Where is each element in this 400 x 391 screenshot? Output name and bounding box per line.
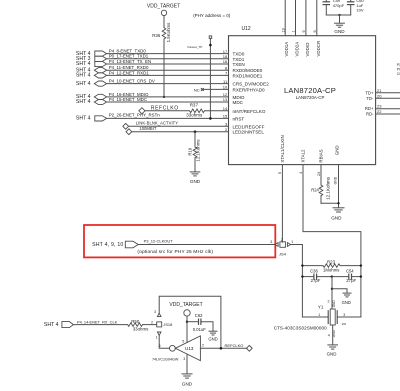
svg-text:LED2/nINTSEL: LED2/nINTSEL bbox=[233, 130, 265, 135]
svg-text:TD-: TD- bbox=[366, 96, 374, 101]
svg-text:SHT 4: SHT 4 bbox=[76, 81, 91, 87]
wire MDIO bbox=[107, 96, 229, 98]
svg-text:XTAL1/CLKIN: XTAL1/CLKIN bbox=[280, 135, 285, 162]
svg-text:GND: GND bbox=[342, 300, 351, 305]
wire RD+ pin 23 bbox=[376, 108, 400, 110]
wire TX_EN bbox=[107, 63, 229, 65]
node 100MBIT (diamond) bbox=[126, 126, 157, 135]
svg-text:P4_15-ENET_MDC: P4_15-ENET_MDC bbox=[109, 97, 147, 102]
svg-text:R24: R24 bbox=[311, 188, 319, 193]
tag SHT 4 PHY_RSTn bbox=[76, 113, 160, 122]
svg-text:P4_13-ENET_TX_EN: P4_13-ENET_TX_EN bbox=[109, 59, 151, 64]
wire JS18 pin3 bypass bbox=[159, 296, 221, 348]
svg-text:R37: R37 bbox=[190, 103, 199, 108]
tag SHT 4 MDIO bbox=[76, 92, 149, 100]
svg-text:33ohms: 33ohms bbox=[186, 112, 203, 117]
IC left pin numbers bbox=[223, 49, 228, 132]
tag SHT 4 RX_CLK bbox=[44, 319, 118, 328]
ground (caps) bbox=[335, 23, 345, 27]
wire JS4 pin1 to crystal left node bbox=[291, 245, 303, 318]
power VDD_TARGET (bottom) bbox=[169, 302, 202, 342]
svg-text:SHT 4: SHT 4 bbox=[76, 116, 91, 122]
svg-text:LAN8720A-CP: LAN8720A-CP bbox=[284, 86, 336, 95]
svg-text:Fanout_TP: Fanout_TP bbox=[188, 45, 203, 49]
svg-text:19: 19 bbox=[281, 28, 285, 32]
tag SHT 4 TXD0 bbox=[76, 49, 146, 57]
svg-text:74LVC1G04GW: 74LVC1G04GW bbox=[152, 357, 179, 361]
svg-text:SHT 4: SHT 4 bbox=[44, 322, 59, 328]
svg-text:VDD2A: VDD2A bbox=[295, 42, 300, 57]
svg-text:470pF: 470pF bbox=[333, 3, 345, 8]
svg-text:REFCLKO: REFCLKO bbox=[225, 343, 244, 348]
tag SHT 3 TXD1 bbox=[76, 54, 149, 62]
svg-text:16: 16 bbox=[223, 59, 228, 64]
svg-text:XTAL2: XTAL2 bbox=[301, 149, 306, 163]
svg-text:R50: R50 bbox=[131, 319, 140, 324]
svg-text:24: 24 bbox=[317, 172, 321, 176]
resistor R23 1Mohms bbox=[302, 259, 361, 272]
wire R50 to JS18 bbox=[143, 324, 157, 326]
svg-text:LAN8720A-CP: LAN8720A-CP bbox=[296, 95, 325, 100]
wire TXD1 bbox=[107, 58, 229, 60]
svg-text:U13: U13 bbox=[185, 346, 194, 351]
IC right pin labels TD+/TD-/RD+/RD- bbox=[365, 90, 374, 116]
svg-text:TD+: TD+ bbox=[365, 90, 374, 95]
wire GND pin down bbox=[338, 165, 340, 208]
inverter U13 74LVC1G04GW bbox=[152, 336, 204, 362]
node REFCLKO (diamond, bottom) bbox=[225, 343, 253, 351]
wire LED1 bbox=[129, 125, 229, 127]
svg-text:23: 23 bbox=[377, 104, 382, 109]
wire MDC bbox=[107, 101, 229, 103]
svg-text:RBIAS: RBIAS bbox=[319, 149, 324, 162]
power VDD_TARGET (top, R36) bbox=[147, 3, 180, 27]
svg-text:VDD_TARGET: VDD_TARGET bbox=[169, 302, 202, 308]
ground (crystal top) bbox=[343, 293, 351, 297]
svg-text:CRS_DV/MODE2: CRS_DV/MODE2 bbox=[233, 82, 270, 87]
svg-text:VDD1A: VDD1A bbox=[284, 42, 289, 57]
svg-text:GND: GND bbox=[332, 300, 336, 308]
svg-text:1: 1 bbox=[292, 30, 296, 32]
resistor R19 12.1Kohms bbox=[187, 132, 200, 172]
wire RXD0 bbox=[107, 69, 229, 71]
resistor R36 1.5Kohms bbox=[152, 22, 171, 97]
svg-text:22: 22 bbox=[377, 109, 382, 114]
wire XTAL2 pin4 down and right bbox=[303, 165, 361, 317]
svg-text:VDD_TARGET: VDD_TARGET bbox=[147, 3, 180, 9]
testpoint Fanout_TP bbox=[188, 36, 212, 119]
svg-text:3: 3 bbox=[154, 310, 156, 314]
svg-text:(PHY address = 0): (PHY address = 0) bbox=[193, 13, 231, 18]
svg-text:VDDCR: VDDCR bbox=[316, 41, 321, 57]
IC right pin numbers bbox=[377, 88, 382, 114]
wire LED2 bbox=[132, 131, 229, 133]
svg-text:2: 2 bbox=[202, 344, 204, 348]
node LED2/R19 junction bbox=[194, 130, 197, 133]
svg-text:P4_14-ENET_RX_CLK: P4_14-ENET_RX_CLK bbox=[77, 319, 118, 324]
svg-text:VDDIO: VDDIO bbox=[305, 42, 310, 56]
tag SHT 4 TX_EN bbox=[76, 59, 151, 67]
svg-text:1: 1 bbox=[291, 240, 293, 244]
svg-text:NC: NC bbox=[194, 87, 200, 92]
svg-text:(optional src for PHY 25 MHz c: (optional src for PHY 25 MHz clk) bbox=[137, 249, 213, 255]
svg-text:CTS-403C3S02SM00000: CTS-403C3S02SM00000 bbox=[274, 326, 327, 331]
wire U13 output bbox=[200, 347, 247, 349]
tag SHT 4 MDC bbox=[76, 97, 147, 105]
svg-text:RXER/PHYAD0: RXER/PHYAD0 bbox=[233, 87, 266, 92]
resistor R50 33ohms bbox=[128, 319, 150, 331]
svg-text:TXEN: TXEN bbox=[233, 62, 245, 67]
svg-text:JS4: JS4 bbox=[279, 251, 287, 256]
svg-text:4: 4 bbox=[328, 334, 330, 338]
svg-text:2: 2 bbox=[151, 320, 153, 324]
svg-text:GND: GND bbox=[335, 145, 340, 155]
wire TXD0 bbox=[107, 53, 229, 55]
svg-text:R36: R36 bbox=[152, 33, 161, 38]
capacitor C36 27pF bbox=[302, 269, 348, 284]
wire crystal mid column bbox=[331, 277, 333, 309]
svg-text:RD-: RD- bbox=[366, 112, 374, 117]
svg-text:GND: GND bbox=[331, 215, 342, 220]
svg-text:GND: GND bbox=[334, 29, 345, 34]
ground (C62) bbox=[209, 331, 217, 335]
svg-text:P4_10-ENET_CRS_DV: P4_10-ENET_CRS_DV bbox=[109, 79, 155, 84]
svg-text:R23: R23 bbox=[327, 259, 336, 264]
ground (U13) bbox=[182, 374, 192, 378]
svg-text:3: 3 bbox=[343, 313, 345, 317]
wire TD- pin 20 bbox=[376, 97, 400, 99]
wire R37 to pin 14 bbox=[205, 110, 229, 112]
svg-text:2: 2 bbox=[281, 238, 283, 242]
wire TD+ pin 21 bbox=[376, 92, 400, 94]
ground (R19) bbox=[190, 172, 200, 176]
wire caps to gnd bbox=[326, 14, 350, 16]
capacitor C60 1uF 10V bbox=[347, 0, 365, 15]
svg-text:4: 4 bbox=[159, 344, 161, 348]
svg-text:P3_12-CLKOUT: P3_12-CLKOUT bbox=[144, 238, 174, 243]
wire CLKOUT to JS4 bbox=[138, 244, 275, 246]
capacitor C62 0.01uF bbox=[187, 313, 213, 332]
tag SHT 4,9,10 CLKOUT bbox=[92, 238, 213, 255]
svg-text:MDC: MDC bbox=[233, 100, 244, 105]
svg-text:12.1Kohms: 12.1Kohms bbox=[196, 139, 201, 162]
svg-text:2W: 2W bbox=[342, 322, 347, 326]
IC bottom pin labels (rotated) bbox=[280, 135, 340, 162]
svg-text:12.1Kohms: 12.1Kohms bbox=[325, 176, 330, 200]
tag SHT 4 RXD1 bbox=[76, 70, 149, 78]
ground (GND pin / R24) bbox=[333, 208, 344, 212]
svg-text:C54: C54 bbox=[346, 269, 354, 274]
wire XTAL1/CLKIN pin5 down to JS4 bbox=[281, 165, 283, 243]
svg-text:GND: GND bbox=[182, 382, 193, 387]
resistor R37 33ohms bbox=[186, 103, 204, 118]
svg-text:6: 6 bbox=[313, 30, 317, 32]
svg-text:0.01uF: 0.01uF bbox=[193, 327, 206, 332]
node nRST junction bbox=[209, 117, 212, 120]
IC left pin labels bbox=[233, 52, 270, 135]
svg-text:1: 1 bbox=[318, 313, 320, 317]
tag SHT 4 CRS_DV bbox=[76, 79, 155, 87]
wire RXD1 bbox=[107, 74, 229, 76]
svg-text:P2_26-ENET_PHY_RSTn: P2_26-ENET_PHY_RSTn bbox=[109, 113, 161, 118]
svg-text:C62: C62 bbox=[195, 313, 203, 318]
capacitor C54 27pF bbox=[346, 269, 361, 284]
svg-text:GND: GND bbox=[190, 179, 201, 184]
svg-text:9: 9 bbox=[302, 30, 306, 32]
wire RX_CLK to R50 bbox=[73, 324, 127, 326]
IC U12 body bbox=[229, 26, 376, 164]
wire nRST bbox=[107, 117, 229, 119]
IC bottom pin numbers (rotated) bbox=[278, 172, 337, 185]
svg-text:RD+: RD+ bbox=[365, 106, 374, 111]
IC top power pins VDD1A VDD2A VDDIO VDDCR bbox=[284, 0, 286, 36]
svg-text:GND: GND bbox=[208, 337, 217, 342]
svg-text:GND: GND bbox=[327, 351, 337, 356]
svg-text:15: 15 bbox=[223, 114, 228, 119]
wire U13 pin3 to gnd bbox=[186, 355, 188, 374]
svg-text:5: 5 bbox=[182, 339, 184, 343]
svg-text:21: 21 bbox=[377, 88, 382, 93]
svg-text:nINT/REFCLKO: nINT/REFCLKO bbox=[233, 109, 266, 114]
jumper JS4 bbox=[270, 238, 293, 257]
svg-text:SHT 4: SHT 4 bbox=[76, 73, 91, 79]
svg-text:SHT 4: SHT 4 bbox=[76, 99, 91, 105]
svg-text:27pF: 27pF bbox=[346, 278, 356, 283]
node REFCLKO (diamond) bbox=[139, 105, 179, 114]
wire JS18 pin1 to inverter input bbox=[159, 335, 169, 348]
wire to gnd (crystal case) bbox=[332, 289, 347, 293]
svg-text:1.5Kohms: 1.5Kohms bbox=[166, 22, 171, 43]
svg-text:RXD1/MODE1: RXD1/MODE1 bbox=[233, 73, 263, 78]
svg-text:P4_12-ENET_RXD1: P4_12-ENET_RXD1 bbox=[109, 70, 150, 75]
svg-text:20: 20 bbox=[377, 93, 382, 98]
svg-text:JS18: JS18 bbox=[163, 322, 172, 327]
node LINK-BLNK_ACTVITY (diamond) bbox=[123, 121, 178, 130]
svg-text:27pF: 27pF bbox=[311, 278, 321, 283]
svg-text:2: 2 bbox=[328, 300, 330, 304]
no-connect pin 10 bbox=[194, 87, 229, 92]
svg-text:SHT 4, 9, 10: SHT 4, 9, 10 bbox=[92, 242, 123, 248]
svg-text:3: 3 bbox=[183, 357, 185, 361]
svg-text:1: 1 bbox=[156, 336, 158, 340]
svg-text:14: 14 bbox=[223, 106, 228, 111]
crystal Y1 bbox=[302, 300, 361, 345]
tag SHT 4 RXD0 bbox=[76, 65, 149, 73]
capacitor C59 470pF bbox=[323, 0, 345, 15]
wire RD- pin 22 bbox=[376, 113, 400, 115]
svg-text:GND: GND bbox=[333, 176, 337, 184]
svg-text:100MBIT: 100MBIT bbox=[139, 126, 156, 131]
svg-text:U12: U12 bbox=[242, 26, 251, 32]
cut-off text right edge bbox=[397, 63, 400, 76]
wire CRS_DV bbox=[107, 83, 229, 85]
svg-text:13: 13 bbox=[223, 97, 228, 102]
jumper JS18 bbox=[154, 310, 172, 340]
svg-text:5: 5 bbox=[278, 172, 282, 174]
svg-text:10V: 10V bbox=[356, 8, 363, 13]
ground (crystal bottom) bbox=[328, 345, 338, 349]
svg-text:4: 4 bbox=[299, 172, 303, 174]
svg-text:3: 3 bbox=[270, 240, 272, 244]
svg-text:LED1/REGOFF: LED1/REGOFF bbox=[233, 124, 265, 129]
svg-text:LINK-BLNK_ACTVITY: LINK-BLNK_ACTVITY bbox=[136, 121, 179, 126]
svg-text:10: 10 bbox=[223, 85, 228, 90]
svg-text:1Mohms: 1Mohms bbox=[323, 268, 339, 273]
svg-text:Y1: Y1 bbox=[318, 305, 324, 310]
svg-text:C36: C36 bbox=[310, 269, 318, 274]
resistor R24 12.1Kohms bbox=[311, 165, 338, 204]
highlight red box bbox=[84, 225, 275, 257]
svg-text:nRST: nRST bbox=[233, 116, 245, 121]
svg-text:R19: R19 bbox=[187, 147, 192, 155]
svg-text:33ohms: 33ohms bbox=[133, 326, 149, 331]
node R36 to MDIO junction bbox=[163, 96, 165, 98]
svg-text:SHT 4: SHT 4 bbox=[76, 61, 91, 67]
wire REFCLKO to R37 bbox=[145, 110, 190, 112]
